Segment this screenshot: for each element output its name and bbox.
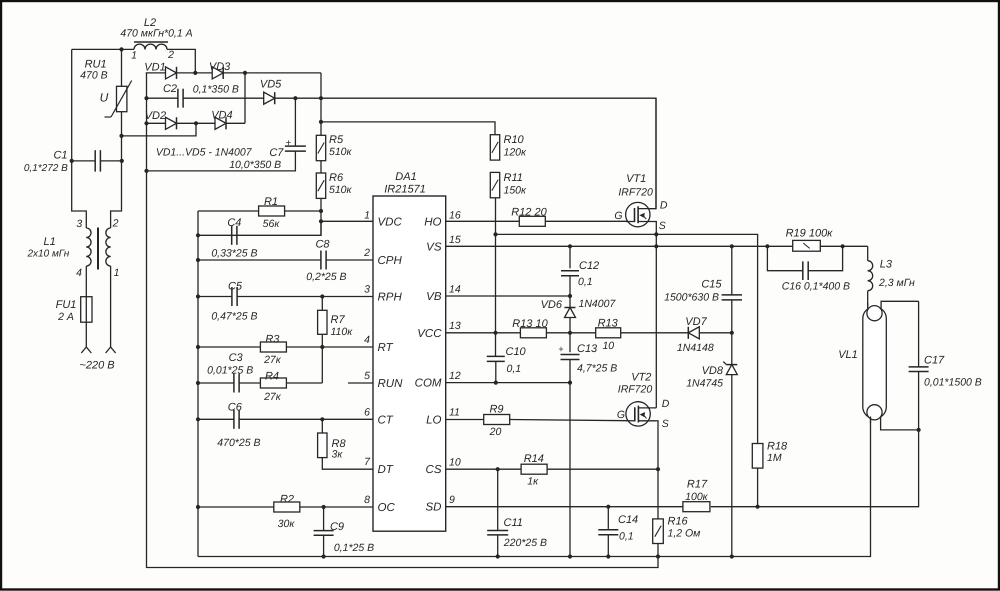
svg-text:6: 6 [364,406,370,418]
svg-text:5: 5 [364,370,370,382]
wire L1 pin1 to terminal [110,266,112,347]
wire mains left vertical [72,49,87,228]
capacitor C10 with taps [487,356,505,382]
label VD2 [145,110,166,122]
svg-text:R13 10: R13 10 [512,318,548,330]
diode VD7 [688,327,699,339]
value R10 120к [504,147,528,159]
svg-text:C12: C12 [579,260,599,272]
wire return bus [147,171,659,568]
label VD1...VD5 - 1N4007 [156,147,253,159]
label VD4 [211,110,232,122]
svg-text:R7: R7 [331,314,346,326]
wire SD line [446,430,919,507]
svg-text:4: 4 [76,267,82,279]
svg-text:2 А: 2 А [57,311,74,323]
label R12 20 [511,206,547,218]
svg-text:R12 20: R12 20 [511,206,547,218]
diode VD2 [166,117,177,129]
wire RPH line [198,296,373,298]
svg-text:16: 16 [449,210,461,222]
svg-text:1: 1 [114,267,120,279]
svg-text:+: + [558,344,563,354]
wire rail to R10 [321,122,495,135]
label VD8 [702,365,724,377]
svg-text:0,1: 0,1 [578,276,593,288]
svg-text:C5: C5 [228,281,243,293]
wire lamp bottom left pin [870,417,872,424]
svg-text:C9: C9 [330,521,344,533]
wire OC line [198,506,373,508]
wire AC2 jog [122,123,197,136]
label R5 [329,134,344,146]
svg-text:220*25 В: 220*25 В [503,537,547,549]
svg-text:1к: 1к [527,475,539,487]
wire RT line [198,346,373,348]
label R13b [598,318,619,330]
svg-text:IR21571: IR21571 [384,184,426,196]
label C7 [269,147,284,159]
svg-text:VDC: VDC [378,216,403,228]
lamp VL1 top filament [867,306,882,321]
svg-text:0,2*25 В: 0,2*25 В [306,271,346,283]
svg-text:RT: RT [378,342,394,354]
svg-text:VD1...VD5 - 1N4007: VD1...VD5 - 1N4007 [156,147,253,159]
svg-text:2: 2 [112,218,119,230]
svg-text:15: 15 [449,234,461,246]
value VD8 1N4745 [686,377,723,389]
svg-text:VD3: VD3 [209,61,231,73]
label C3 [229,352,244,364]
wire VD4 line [196,73,245,123]
value R14 1к [527,475,539,487]
svg-text:VT1: VT1 [626,173,646,185]
svg-text:L1: L1 [43,236,55,248]
svg-text:4: 4 [364,334,370,346]
label R14 [524,453,544,465]
svg-text:470 мкГн*0,1 А: 470 мкГн*0,1 А [120,28,192,40]
svg-text:D: D [662,398,670,410]
svg-text:1: 1 [364,210,370,222]
svg-text:R13: R13 [598,318,619,330]
svg-text:470 В: 470 В [80,70,107,82]
svg-text:S: S [659,220,666,232]
label C6 [228,402,243,414]
svg-text:27к: 27к [263,354,282,366]
svg-text:C8: C8 [315,239,330,251]
wire lamp top left pin [867,303,869,310]
svg-text:4,7*25 В: 4,7*25 В [577,363,617,375]
svg-text:VD6: VD6 [541,299,563,311]
wire mains top [72,49,196,73]
label R4 [265,371,279,383]
svg-text:1N4007: 1N4007 [579,298,617,310]
varistor RU1 [105,81,132,118]
resistor R5 [316,135,325,160]
svg-text:1500*630 В: 1500*630 В [664,292,719,304]
svg-text:~220 В: ~220 В [79,360,114,372]
svg-text:12: 12 [449,370,461,382]
label R11 [504,172,523,184]
svg-text:510к: 510к [329,146,353,158]
capacitor C2 [178,89,183,108]
label DA1 [395,171,416,183]
svg-text:G: G [614,210,622,222]
svg-text:FU1: FU1 [56,299,77,311]
resistor R12 [519,216,545,226]
svg-text:8: 8 [364,494,370,506]
value C1 0,1*272 В [24,163,68,174]
svg-text:DA1: DA1 [395,171,416,183]
label ~220 В [79,360,114,372]
terminal right [106,347,116,353]
label R16 [668,515,689,527]
svg-text:VD2: VD2 [145,110,166,122]
label C13 [577,343,598,355]
resistor R11 [490,172,499,197]
label L2 [144,17,156,29]
wire CS line [446,468,658,470]
svg-text:SD: SD [426,502,442,514]
svg-text:R1: R1 [264,196,278,208]
svg-text:C13: C13 [577,343,598,355]
svg-text:C6: C6 [228,402,243,414]
svg-text:R2: R2 [280,494,294,506]
lamp VL1 tube [863,307,887,419]
label R3 [265,334,280,346]
label VT2 G [617,409,625,421]
inductor L2 [134,42,168,49]
svg-text:S: S [662,418,669,430]
capacitor C4 [232,226,237,245]
value C13 4,7*25 В [577,363,617,375]
value R7 110к [331,326,354,338]
label C2 [163,83,177,95]
label VD5 [260,79,282,91]
value C12 0,1 [578,276,593,288]
wire FU1 to terminal [85,322,87,347]
svg-text:1N4148: 1N4148 [677,342,714,354]
svg-text:0,01*25 В: 0,01*25 В [207,365,253,377]
label R1 [264,196,278,208]
label VT1 [626,173,646,185]
wire lamp top right pin [881,301,919,308]
label R17 [687,479,708,491]
value C7 10,0*350 В [229,159,281,171]
wire C7 tap [147,98,296,171]
resistor R3 [260,342,286,352]
label C5 [228,281,243,293]
label C11 [504,517,523,529]
svg-text:10: 10 [602,340,614,352]
svg-text:RPH: RPH [378,292,403,304]
svg-text:IRF720: IRF720 [618,186,653,198]
label VT2 D [662,398,670,410]
label VT1 S [659,220,666,232]
svg-text:CS: CS [426,464,442,476]
capacitor C5 [232,287,237,306]
svg-text:0,1: 0,1 [507,363,522,375]
wire to L3 [867,246,869,260]
svg-text:2: 2 [167,49,174,61]
pin 3 of L1 [76,218,82,230]
svg-text:COM: COM [415,378,442,390]
svg-text:VD7: VD7 [685,316,707,328]
svg-text:L3: L3 [880,259,893,271]
resistor R7 with taps [318,297,327,348]
svg-text:13: 13 [449,320,461,332]
svg-text:C7: C7 [269,147,284,159]
IC pin names right [415,210,461,514]
svg-text:0,1*25 В: 0,1*25 В [334,542,374,554]
label C12 [579,260,599,272]
svg-text:1,2 Ом: 1,2 Ом [668,528,701,540]
value R9 20 [489,426,502,438]
value C14 0,1 [619,530,634,542]
label C8 [315,239,330,251]
label VD3 [209,61,231,73]
svg-text:HO: HO [424,216,441,228]
svg-text:R10: R10 [504,134,525,146]
svg-text:IRF720: IRF720 [618,384,653,396]
value C5 0,47*25 В [211,311,257,323]
value R13b 10 [602,340,614,352]
pin 1 of L1 [114,267,120,279]
wire R1 line [198,210,321,212]
wire left rail [197,211,199,557]
svg-text:+: + [285,138,291,149]
wire C2 line [146,97,321,99]
zener VD8 with taps [723,333,737,557]
value L1 2x10 мГн [26,249,69,260]
svg-text:OC: OC [378,502,396,514]
svg-text:R18: R18 [767,441,788,453]
wire VT1 source to VT2 drain [655,222,657,408]
svg-text:510к: 510к [329,184,353,196]
pin 4 of L1 [76,267,82,279]
label RU1 [85,59,107,71]
label IR21571 [384,184,426,196]
svg-text:2,3 мГн: 2,3 мГн [878,277,915,289]
svg-text:C3: C3 [229,352,244,364]
wire COM line [446,382,570,384]
wire VS junction to R18 [496,234,758,443]
diode VD5 [264,92,275,104]
capacitor C11 with taps [487,469,508,556]
svg-text:R5: R5 [329,134,344,146]
label VD7 [685,316,707,328]
resistor R6 [316,173,325,198]
resistor R14 [521,464,547,474]
svg-text:110к: 110к [331,326,354,338]
wire VT1 drain [650,98,656,208]
resistor R19 [793,240,821,251]
value R1 56к [263,218,281,230]
resistor R16 with taps [653,469,664,556]
value C11 220*25 В [503,537,547,549]
svg-text:VD5: VD5 [260,79,282,91]
value C4 0,33*25 В [211,248,257,260]
value RU1 470 В [80,70,107,82]
svg-text:VL1: VL1 [838,349,858,361]
diode VD1 [166,67,177,79]
svg-text:CT: CT [378,414,394,426]
svg-text:R9: R9 [489,403,503,415]
resistor R17 [683,502,710,512]
svg-text:VT2: VT2 [631,372,651,384]
svg-text:C10: C10 [506,346,527,358]
svg-text:3: 3 [76,218,82,230]
svg-text:R19 100к: R19 100к [786,228,834,240]
capacitor C16 [803,261,808,280]
wire HO line [446,220,627,222]
label VD1 [144,62,165,74]
fuse FU1 [81,297,92,323]
wire VB line [446,295,570,297]
terminal left [81,347,91,353]
svg-text:VS: VS [426,241,442,253]
value C6 470*25 В [217,437,260,449]
value C2 0,1*350 В [193,84,239,96]
svg-text:10: 10 [449,457,461,469]
label C1 [53,150,67,162]
wire VCC line [446,332,732,334]
diode VD6 with taps [565,296,576,333]
transistor VT1 [626,202,656,226]
wire VS node line [446,245,868,247]
value VT1 IRF720 [618,186,653,198]
svg-text:150к: 150к [504,185,528,197]
svg-text:30к: 30к [278,518,296,530]
transformer L1 [86,228,110,270]
resistor R10 [490,135,499,160]
capacitor C13 electrolytic [558,333,579,383]
svg-text:C14: C14 [618,514,638,526]
value L3 2,3 мГн [878,277,915,289]
wire L3 to lamp [867,291,869,306]
inductor L3 [868,261,873,291]
value R2 30к [278,518,296,530]
svg-text:R11: R11 [504,172,523,184]
label R18 [767,441,788,453]
resistor R2 [274,502,300,512]
value R8 3к [332,449,344,461]
wire VDC pin line [321,220,373,222]
svg-text:1M: 1M [767,452,782,464]
svg-text:VB: VB [426,291,442,303]
value FU1 2 А [57,311,74,323]
wire VT2 source down [656,421,658,469]
wire ground bus [198,420,871,557]
diode VD3 [212,67,223,79]
capacitor C8 [321,251,326,270]
svg-text:R17: R17 [687,479,708,491]
svg-text:R3: R3 [265,334,280,346]
value R16 1,2 Ом [668,528,701,540]
value R5 510к [329,146,353,158]
label VT2 [631,372,651,384]
wire R11 down to VCC and C10 [495,198,497,356]
svg-text:R14: R14 [524,453,544,465]
wire DC plus vertical [320,73,322,235]
wire C4 line [198,222,321,235]
svg-text:3: 3 [364,284,370,296]
svg-text:VD4: VD4 [211,110,232,122]
transistor VT2 [626,402,656,426]
label R2 [280,494,294,506]
value VD6 1N4007 [579,298,617,310]
capacitor C9 with taps [314,507,334,557]
wire bridge left vertical [146,73,148,171]
svg-text:R16: R16 [668,515,689,527]
label C15 [701,279,722,291]
svg-text:0,33*25 В: 0,33*25 В [211,248,257,260]
label C17 [924,355,945,367]
svg-text:VD8: VD8 [702,365,724,377]
svg-text:0,47*25 В: 0,47*25 В [211,311,257,323]
wire COM node down [569,383,571,557]
value C17 0,01*1500 В [924,377,982,389]
svg-text:0,1: 0,1 [619,530,634,542]
capacitor C1 [95,150,100,172]
label L3 [880,259,893,271]
resistor R9 [484,415,510,425]
label VT2 S [662,418,669,430]
label C14 [618,514,638,526]
value R18 1M [767,452,782,464]
value VT2 IRF720 [618,384,653,396]
wire lamp bottom right pin [881,417,919,430]
label L1 [43,236,55,248]
capacitor C3 [234,374,239,393]
svg-text:VCC: VCC [417,328,442,340]
capacitor C14 with taps [598,507,618,557]
label C9 [330,521,344,533]
svg-text:56к: 56к [263,218,281,230]
wire C16 branch [767,246,842,270]
svg-text:C15: C15 [701,279,722,291]
wire VD2 line [146,122,196,124]
svg-text:120к: 120к [504,147,528,159]
label C10 [506,346,527,358]
svg-text:VD1: VD1 [144,62,165,74]
value R17 100к [685,491,709,503]
wire RU1 branch [111,49,122,228]
wire CT line [198,418,373,420]
capacitor C15 with taps [722,246,742,332]
svg-text:C1: C1 [53,150,67,162]
wire C1 line [72,160,122,162]
value C9 0,1*25 В [334,542,374,554]
value C3 0,01*25 В [207,365,253,377]
svg-text:CPH: CPH [378,255,403,267]
value C10 0,1 [507,363,522,375]
svg-text:27к: 27к [263,391,282,403]
label C4 [227,217,241,229]
label U [100,91,109,105]
IC DA1 body [373,196,446,531]
label C16 0,1*400 В [782,280,850,292]
svg-text:C4: C4 [227,217,241,229]
pin 1 of L2 [131,50,137,62]
pin 2 of L1 [112,218,119,230]
svg-text:20: 20 [489,426,502,438]
svg-text:C2: C2 [163,83,177,95]
svg-text:R4: R4 [265,371,279,383]
value VD7 1N4148 [677,342,714,354]
pin 2 of L2 [167,49,174,61]
label R8 [332,438,347,450]
